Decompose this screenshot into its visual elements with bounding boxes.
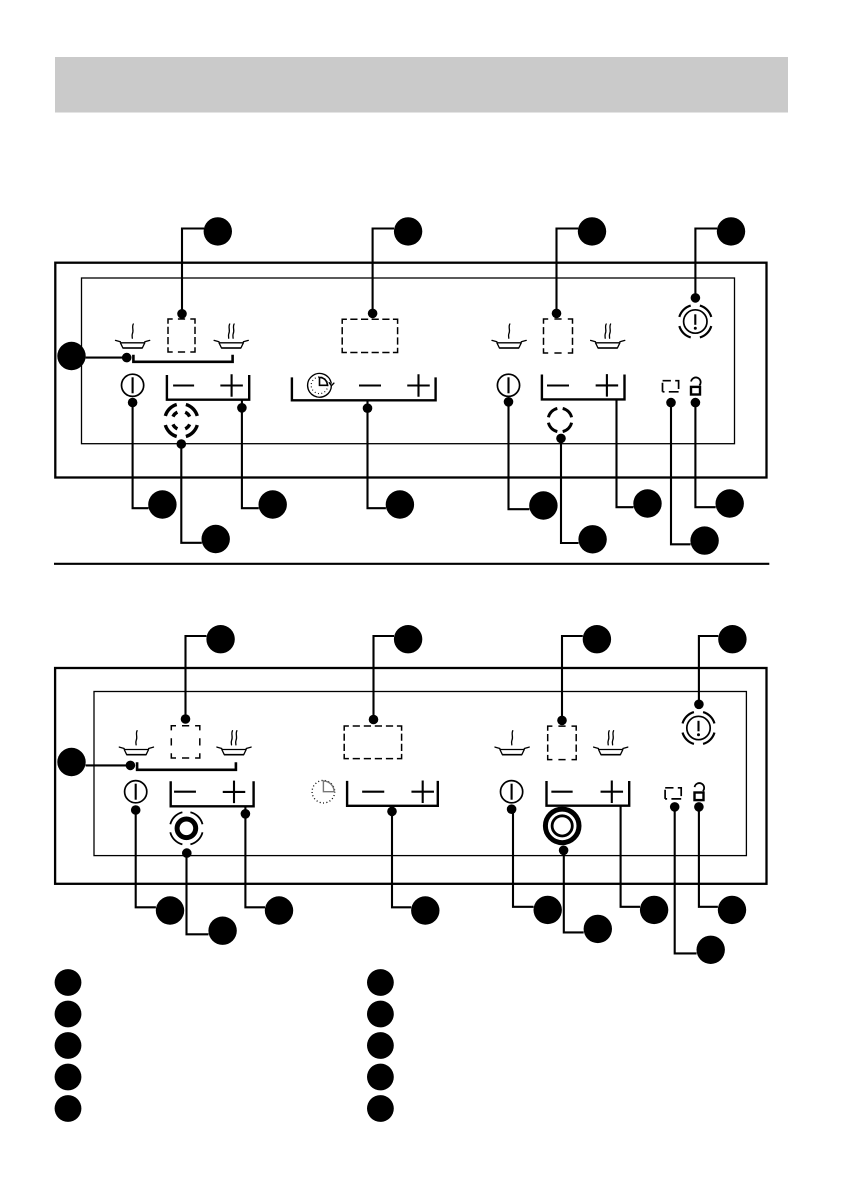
power key zone 1 xyxy=(122,374,144,396)
timer minus key (diagram 2) xyxy=(362,791,384,793)
zone selection bracket (left) xyxy=(133,355,232,362)
callout 11 (lock key, diagram 2) xyxy=(718,896,746,924)
callout 8 (timer keys, diagram 2) xyxy=(411,896,439,924)
node on zone-2 display xyxy=(552,309,562,319)
wire booster zone 2 to callout 6b (diagram 2) xyxy=(564,850,584,932)
booster indicator zone 1 (lit, diagram 2) xyxy=(170,812,202,844)
minus/plus key field zone 1 (diagram 2) xyxy=(171,781,254,806)
wire lock key to callout 11 xyxy=(695,403,715,508)
callout 7b (plus key zone 2) xyxy=(633,489,661,517)
node under plus key zone 1 xyxy=(237,403,247,413)
timer minus key xyxy=(359,384,381,386)
callout 3 (zone-2 display) xyxy=(578,217,606,245)
callout 6 (booster zone 1) xyxy=(202,525,230,553)
legend bullet 9 (right column) xyxy=(367,1064,394,1091)
legend bullet 3 (left column) xyxy=(55,1032,82,1059)
diagram 1 inner panel frame xyxy=(82,278,735,444)
lock key (open padlock) xyxy=(691,377,701,394)
wire callout 10 to zone selection bracket (diagram 2) xyxy=(86,764,131,766)
wire power key zone 1 to callout 5 xyxy=(133,403,149,509)
callout 10 (zone selection) xyxy=(57,342,85,370)
node under booster indicator zone 2 (diagram 2) xyxy=(559,846,569,856)
wire booster zone 1 to callout 6 (diagram 2) xyxy=(187,853,209,934)
wire lock key to callout 11 (diagram 2) xyxy=(699,807,718,907)
power key zone 1 (diagram 2) xyxy=(125,781,147,803)
wire booster zone 1 to callout 6 xyxy=(181,444,202,543)
callout 9 (pause key, diagram 2) xyxy=(697,936,725,964)
wire callout 3 to zone-2 display (diagram 2) xyxy=(562,636,583,722)
minus/plus key field zone 1 xyxy=(167,375,249,400)
callout 1 (zone-1 display) xyxy=(204,217,232,245)
pan icon single zone (left) xyxy=(116,324,150,348)
diagram 1 outer panel frame xyxy=(55,263,766,478)
zone-2 display window (dashed, diagram 2) xyxy=(548,726,577,760)
callout 2 (timer display) xyxy=(394,217,422,245)
pause key (dashed rect) xyxy=(663,381,679,392)
callout 4 (main-switch indicator) xyxy=(717,217,745,245)
timer key field (diagram 2) xyxy=(347,781,438,806)
timer key field xyxy=(292,377,436,400)
timer display window (dashed, diagram 2) xyxy=(344,726,401,759)
legend bullet 1 (left column) xyxy=(55,969,82,996)
diagram 2 outer panel frame xyxy=(55,668,766,884)
minus key zone 2 xyxy=(547,384,569,386)
plus key zone 1 (diagram 2) xyxy=(223,781,246,804)
callout 7 (plus key zone 1) xyxy=(259,490,287,518)
node on main-switch indicator (diagram 2) xyxy=(694,700,704,710)
node on timer display xyxy=(368,309,378,319)
power key zone 2 xyxy=(497,374,519,396)
wire plus key zone 2 to callout 7b xyxy=(617,399,634,507)
lock key (diagram 2) xyxy=(695,783,705,800)
zone-2 display window (dashed) xyxy=(544,319,573,353)
minus key zone 1 xyxy=(173,384,194,386)
timer plus key (diagram 2) xyxy=(411,780,434,803)
callout 11 (lock key) xyxy=(716,489,744,517)
minus/plus key field zone 2 (diagram 2) xyxy=(547,781,630,806)
wire callout 1 to zone-1 display (diagram 2) xyxy=(186,636,207,722)
legend bullet 2 (left column) xyxy=(55,1001,82,1028)
plus key zone 1 xyxy=(220,374,243,397)
pan icon double zone (left, diagram 2) xyxy=(217,731,251,755)
booster indicator zone 2 (lit, diagram 2) xyxy=(545,809,579,843)
separator rule between diagrams xyxy=(54,563,769,565)
wire booster zone 2 to callout 6b xyxy=(561,438,579,543)
timer display window (dashed) xyxy=(342,319,397,352)
minus key zone 1 (diagram 2) xyxy=(174,791,196,793)
wire callout 4 to main-switch indicator (diagram 2) xyxy=(699,636,718,706)
wire timer keys to callout 8 xyxy=(368,400,386,508)
wire plus key zone 2 to callout 7b (diagram 2) xyxy=(621,806,640,907)
main switch indicator (circle-exclamation) xyxy=(679,306,711,338)
pan icon single zone (right, diagram 2) xyxy=(495,731,529,755)
node under booster indicator zone 1 xyxy=(177,439,187,449)
wire callout 10 to zone selection bracket xyxy=(86,357,127,359)
node on main-switch indicator xyxy=(691,293,701,303)
legend bullet 8 (right column) xyxy=(367,1032,394,1059)
pause key (diagram 2) xyxy=(665,788,681,799)
node under booster indicator zone 1 (diagram 2) xyxy=(182,848,192,858)
legend bullet 5 (left column) xyxy=(55,1095,82,1122)
callout 3 (zone-2 display, diagram 2) xyxy=(583,625,611,653)
callout 6b (booster zone 2, diagram 2) xyxy=(584,915,612,943)
node under power key zone 1 xyxy=(128,398,138,408)
node under pause key (diagram 2) xyxy=(670,802,680,812)
plus key zone 2 (diagram 2) xyxy=(601,780,624,803)
callout 1 (zone-1 display, diagram 2) xyxy=(206,625,234,653)
power key zone 2 (diagram 2) xyxy=(501,781,523,803)
callout 5b (power key zone 2) xyxy=(529,491,557,519)
timer plus key xyxy=(407,374,430,397)
callout 7 (plus key zone 1, diagram 2) xyxy=(265,896,293,924)
timer icon (diagram 2) xyxy=(312,780,335,803)
callout 9 (pause key) xyxy=(690,526,718,554)
plus key zone 2 xyxy=(596,374,619,397)
callout 10 (zone selection, diagram 2) xyxy=(57,748,85,776)
callout 4 (main-switch indicator, diagram 2) xyxy=(718,625,746,653)
timer icon with arrow xyxy=(308,373,334,397)
main switch indicator (diagram 2) xyxy=(683,712,715,744)
callout 6b (booster zone 2) xyxy=(578,525,606,553)
node under power key zone 2 xyxy=(504,397,514,407)
node on zone selection bracket xyxy=(122,353,132,363)
wire callout 4 to main-switch indicator xyxy=(695,229,717,301)
node on zone-1 display xyxy=(177,309,187,319)
callout 5b (power key zone 2, diagram 2) xyxy=(534,896,562,924)
pan icon double zone (right, diagram 2) xyxy=(594,731,628,755)
node under lock key xyxy=(691,398,701,408)
wire power key zone 1 to callout 5 (diagram 2) xyxy=(136,810,156,907)
pan icon double zone (left) xyxy=(214,324,248,348)
node under booster indicator zone 2 xyxy=(556,434,566,444)
node under power key zone 1 (diagram 2) xyxy=(131,805,141,815)
wire power key zone 2 to callout 5b (diagram 2) xyxy=(513,809,534,907)
wire timer keys to callout 8 (diagram 2) xyxy=(392,806,411,908)
node on zone selection bracket (diagram 2) xyxy=(126,761,136,771)
node under plus key zone 1 (diagram 2) xyxy=(241,809,251,819)
wire plus key zone 1 to callout 7 xyxy=(242,400,259,509)
diagram 2 inner panel frame xyxy=(94,692,746,856)
legend bullet 7 (right column) xyxy=(367,1001,394,1028)
wire pause key to callout 9 xyxy=(671,403,691,545)
legend bullet 10 (right column) xyxy=(367,1095,394,1122)
minus/plus key field zone 2 xyxy=(542,375,625,400)
callout 6 (booster zone 1, diagram 2) xyxy=(208,917,236,945)
callout 2 (timer display, diagram 2) xyxy=(394,625,422,653)
zone-1 display window (dashed) xyxy=(168,319,195,352)
wire callout 2 to timer display (diagram 2) xyxy=(374,636,395,722)
wire callout 2 to timer display xyxy=(373,229,394,317)
legend bullet 6 (right column) xyxy=(367,969,394,996)
callout 5 (power key zone 1) xyxy=(148,490,176,518)
header title bar (grey placeholder) xyxy=(55,57,788,113)
node on zone-2 display (diagram 2) xyxy=(557,716,567,726)
wire plus key zone 1 to callout 7 (diagram 2) xyxy=(245,806,265,907)
node under timer key field xyxy=(363,403,373,413)
zone-1 display window (dashed, diagram 2) xyxy=(171,726,200,758)
callout 8 (timer keys) xyxy=(386,490,414,518)
wire callout 3 to zone-2 display xyxy=(557,229,579,317)
wire power key zone 2 to callout 5b xyxy=(509,402,530,509)
booster indicator zone 1 (dashed rings) xyxy=(165,405,197,437)
node under timer key field (diagram 2) xyxy=(387,807,397,817)
callout 7b (plus key zone 2, diagram 2) xyxy=(640,896,668,924)
wire pause key to callout 9 (diagram 2) xyxy=(675,807,697,954)
legend bullet 4 (left column) xyxy=(55,1064,82,1091)
booster indicator zone 2 (dashed ring) xyxy=(548,408,571,431)
callout 5 (power key zone 1, diagram 2) xyxy=(156,896,184,924)
pan icon single zone (right) xyxy=(492,324,526,348)
zone selection bracket (left, diagram 2) xyxy=(137,762,236,770)
minus key zone 2 (diagram 2) xyxy=(551,791,572,793)
pan icon single zone (left, diagram 2) xyxy=(119,731,153,755)
wire callout 1 to zone-1 display xyxy=(182,229,204,317)
node on timer display (diagram 2) xyxy=(369,715,379,725)
node on zone-1 display (diagram 2) xyxy=(181,714,191,724)
node under lock key (diagram 2) xyxy=(694,802,704,812)
node under power key zone 2 (diagram 2) xyxy=(507,804,517,814)
pan icon double zone (right) xyxy=(591,324,625,348)
node under pause key xyxy=(666,398,676,408)
